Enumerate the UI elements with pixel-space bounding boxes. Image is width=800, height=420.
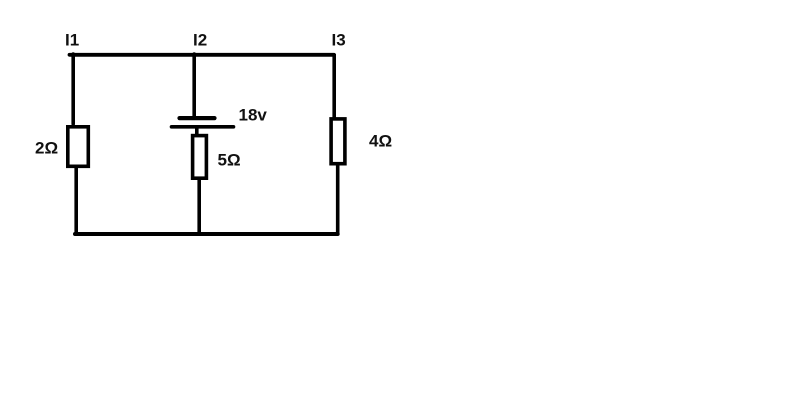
resistor R1 body <box>68 127 89 167</box>
wire middle branch upper <box>192 54 196 116</box>
wire battery to R2 stub <box>195 128 199 135</box>
svg-text:2Ω: 2Ω <box>35 139 58 158</box>
svg-text:5Ω: 5Ω <box>218 150 241 169</box>
resistor R2 value 5Ω <box>218 150 241 169</box>
wire left branch lower <box>74 167 78 234</box>
wire middle branch lower <box>197 179 201 234</box>
svg-text:I2: I2 <box>193 31 207 50</box>
battery V1 value 18v <box>239 105 268 124</box>
resistor R1 value 2Ω <box>35 139 58 158</box>
wire top horizontal <box>70 53 335 57</box>
battery V1 long plate <box>172 125 234 129</box>
svg-text:I3: I3 <box>332 31 346 50</box>
wire right branch upper <box>332 54 336 118</box>
node I2 label <box>193 31 207 50</box>
wire bottom horizontal <box>75 232 338 236</box>
wire left branch upper <box>71 54 75 124</box>
wire right branch lower <box>336 165 340 235</box>
svg-text:18v: 18v <box>239 105 268 124</box>
resistor R3 body <box>331 119 345 164</box>
node I1 label <box>65 31 79 50</box>
node I3 label <box>332 31 346 50</box>
resistor R3 value 4Ω <box>369 132 392 151</box>
svg-text:I1: I1 <box>65 31 79 50</box>
battery V1 short plate <box>180 116 215 120</box>
svg-text:4Ω: 4Ω <box>369 132 392 151</box>
resistor R2 body <box>193 136 207 179</box>
